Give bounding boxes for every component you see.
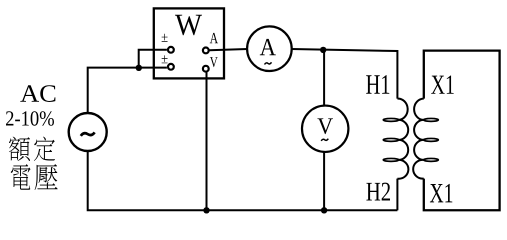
AC source circle bbox=[69, 113, 107, 151]
wattmeter plus-minus mark top bbox=[162, 34, 168, 42]
ammeter label A bbox=[260, 39, 276, 55]
wattmeter terminal pin A bbox=[203, 48, 209, 54]
AC source sine symbol bbox=[81, 132, 95, 136]
primary winding loop ellipse 1 bbox=[383, 118, 398, 121]
wire wattmeter A terminal to ammeter bbox=[209, 49, 247, 50]
wire wattmeter V terminal down to bottom rail bbox=[206, 72, 208, 210]
label H2 bbox=[366, 183, 390, 201]
secondary winding loop ellipse 3 bbox=[424, 158, 439, 161]
node junction bottom rail V-wire bbox=[203, 207, 209, 213]
primary winding loop ellipse 3 bbox=[383, 158, 398, 161]
inductor secondary X winding arcs bbox=[413, 99, 424, 179]
wire ammeter to transformer H1 corner, down to winding bbox=[292, 49, 398, 99]
secondary winding loop ellipse 1 bbox=[424, 118, 439, 121]
label AC bbox=[20, 85, 55, 102]
node junction bottom rail voltmeter bbox=[321, 207, 327, 213]
wire bottom rail bbox=[88, 151, 398, 210]
wire AC source up to junction level bbox=[88, 68, 167, 113]
secondary winding loop ellipse 2 bbox=[424, 138, 439, 141]
wire junction to top plus-minus terminal bbox=[139, 50, 167, 68]
ammeter bbox=[247, 26, 292, 71]
voltmeter label V bbox=[317, 118, 332, 134]
wattmeter label W bbox=[175, 15, 202, 36]
ammeter ac tilde bbox=[265, 62, 272, 64]
wattmeter plus-minus mark bottom bbox=[162, 55, 168, 63]
wire voltmeter branch upper bbox=[323, 50, 325, 106]
label X1 bottom bbox=[430, 184, 452, 203]
label CJK voltage char 1 bbox=[11, 164, 31, 190]
inductor primary H winding arcs bbox=[397, 99, 408, 179]
wire primary bottom to rail bbox=[396, 179, 398, 211]
wire voltmeter branch lower bbox=[323, 152, 325, 210]
wattmeter box bbox=[154, 8, 224, 78]
label CJK rated char 1 bbox=[9, 137, 30, 161]
voltmeter ac tilde bbox=[321, 139, 328, 141]
primary winding loop ellipse 2 bbox=[383, 138, 398, 141]
wattmeter terminal label A bbox=[210, 33, 218, 43]
wattmeter terminal label V bbox=[210, 57, 218, 67]
label H1 bbox=[366, 75, 389, 94]
wattmeter terminal pin plus-minus 1 bbox=[168, 47, 174, 53]
node junction top rail voltmeter tap bbox=[320, 47, 326, 53]
voltmeter bbox=[302, 106, 348, 152]
label 2-10 percent bbox=[6, 111, 54, 126]
node junction left of wattmeter bbox=[136, 65, 142, 71]
label X1 top bbox=[431, 75, 454, 93]
wattmeter terminal pin V bbox=[203, 66, 209, 72]
label CJK voltage char 2 bbox=[35, 164, 58, 190]
secondary enclosure box bbox=[424, 51, 500, 211]
wattmeter terminal pin plus-minus 2 bbox=[168, 64, 174, 70]
label CJK rated char 2 bbox=[34, 137, 55, 161]
